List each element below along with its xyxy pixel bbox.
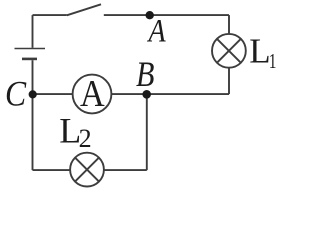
wire right vertical corner to lamp L1 xyxy=(228,15,230,33)
wire lamp L2 to bottom-right corner xyxy=(104,169,147,171)
node C junction dot xyxy=(29,90,37,98)
node B junction dot xyxy=(142,90,151,99)
lamp L2 circle xyxy=(70,153,104,187)
wire lamp L1 to bottom-right corner xyxy=(228,68,230,94)
wire top-left horizontal to switch pivot xyxy=(33,14,67,16)
svg-text:L: L xyxy=(249,32,270,71)
lamp L2 cross xyxy=(75,158,99,182)
wire bottom-right corner up to node B xyxy=(146,94,148,170)
wire node B to ammeter xyxy=(112,93,147,95)
wire right corner to node B xyxy=(147,93,229,95)
wire battery negative lead to node C xyxy=(32,60,34,94)
wire top vertical battery positive lead xyxy=(32,15,34,48)
lamp L1 circle xyxy=(212,34,246,68)
battery long plate xyxy=(15,48,46,50)
battery short plate xyxy=(22,58,37,61)
switch S blade xyxy=(67,4,101,15)
node A junction dot xyxy=(146,11,154,19)
svg-text:C: C xyxy=(5,75,26,114)
wire ammeter to node C xyxy=(33,93,73,95)
wire bottom-left to lamp L2 xyxy=(33,169,71,171)
wire switch right terminal to top-right corner xyxy=(104,14,229,16)
svg-text:A: A xyxy=(80,73,105,115)
svg-text:A: A xyxy=(147,12,166,49)
ammeter U1 circle xyxy=(73,75,112,114)
svg-text:2: 2 xyxy=(79,124,92,153)
svg-text:B: B xyxy=(136,56,154,95)
wire node C down to bottom-left corner xyxy=(32,94,34,170)
lamp L1 cross xyxy=(217,39,241,63)
svg-text:1: 1 xyxy=(269,49,277,73)
